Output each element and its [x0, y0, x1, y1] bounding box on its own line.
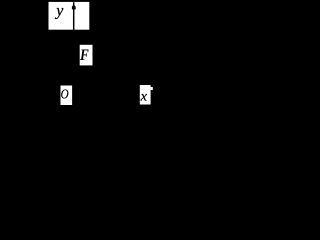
force label box F: [80, 45, 93, 66]
origin label box O: [61, 86, 73, 106]
svg-text:x: x: [140, 89, 148, 104]
y-axis label box: [49, 2, 90, 30]
label O: [61, 87, 69, 102]
x-axis label box: [140, 85, 151, 105]
svg-text:F: F: [79, 47, 89, 64]
y-axis arrow: [72, 2, 76, 30]
label x: [140, 89, 148, 104]
svg-text:O: O: [61, 87, 69, 102]
label y: [54, 3, 64, 20]
x-axis arrow tip remnant (white tab): [151, 87, 153, 90]
svg-text:y: y: [54, 3, 64, 20]
label F: [79, 47, 89, 64]
